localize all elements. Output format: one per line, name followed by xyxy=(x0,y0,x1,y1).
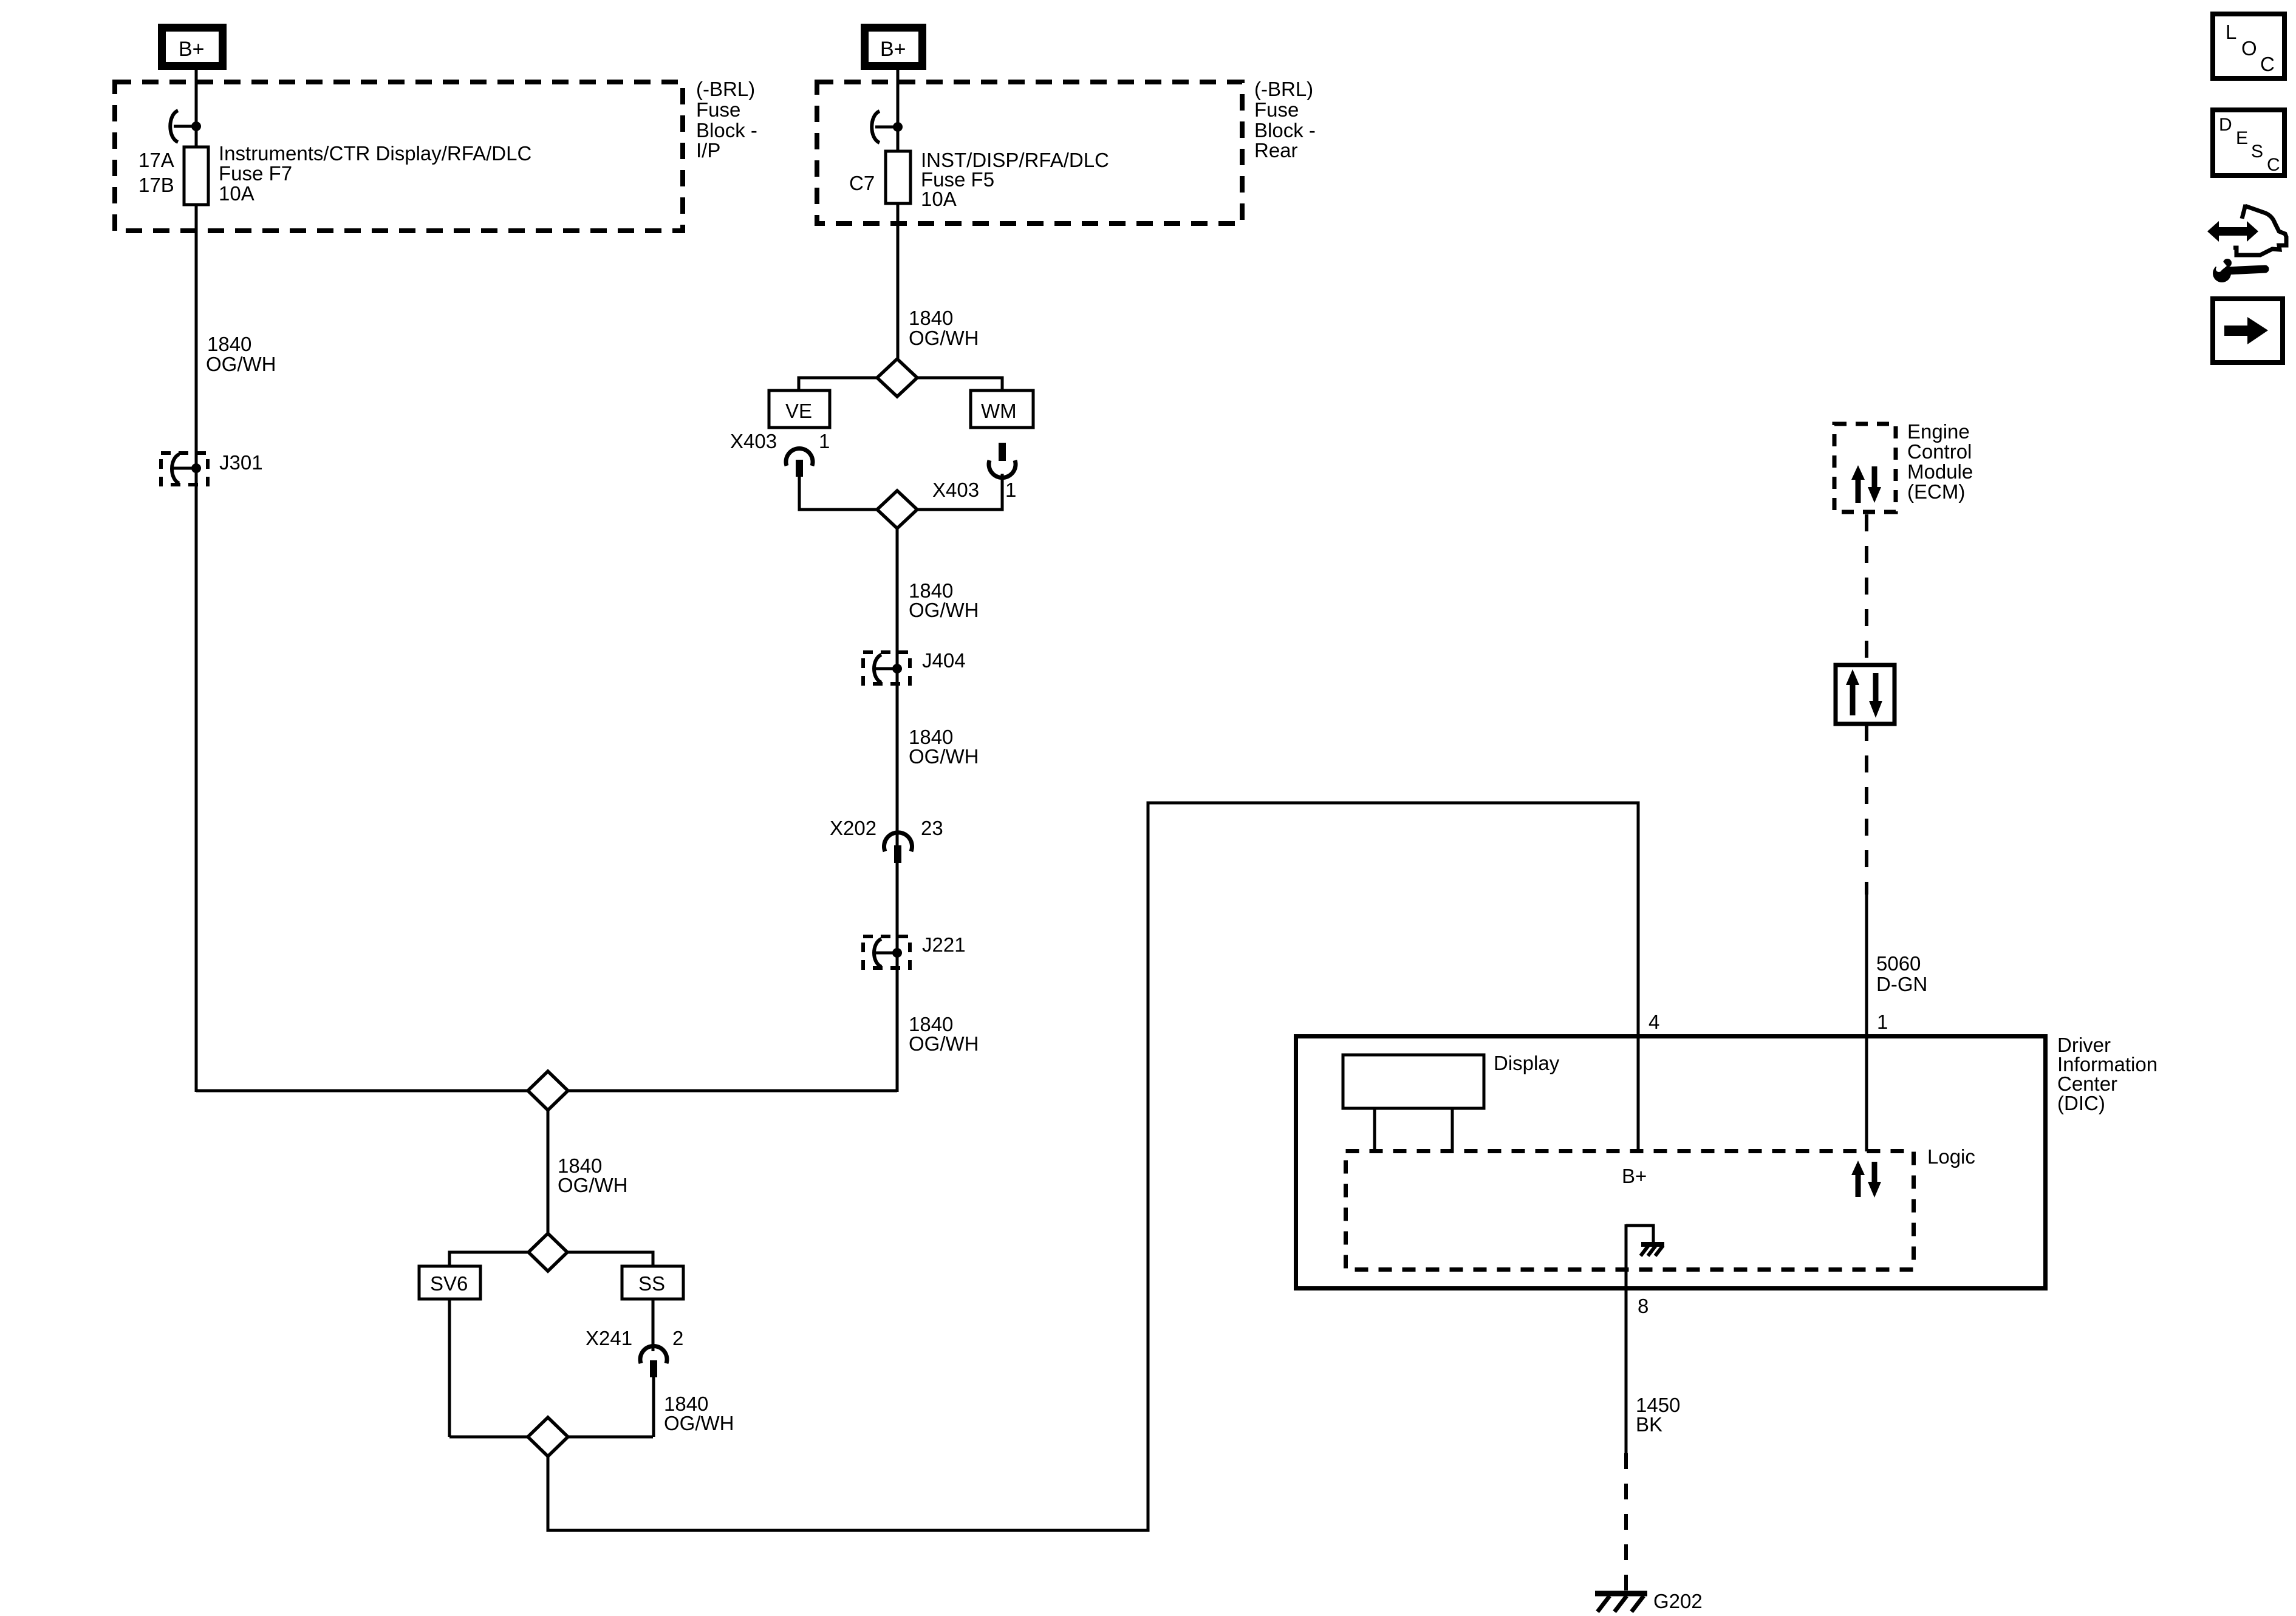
wire label 1840 OG/WH (above bus) xyxy=(909,1013,979,1055)
wire SV6 down to return bus xyxy=(448,1299,451,1437)
svg-text:OG/WH: OG/WH xyxy=(909,1032,979,1055)
svg-text:OG/WH: OG/WH xyxy=(909,327,979,349)
svg-text:D: D xyxy=(2219,115,2232,135)
svg-text:X202: X202 xyxy=(830,817,876,839)
svg-text:4: 4 xyxy=(1649,1011,1659,1033)
svg-text:Display: Display xyxy=(1494,1052,1560,1074)
svg-text:J221: J221 xyxy=(922,933,966,956)
node SV6 xyxy=(419,1266,480,1299)
wire return bus SV6-SS xyxy=(449,1436,653,1439)
svg-text:OG/WH: OG/WH xyxy=(558,1174,627,1196)
internal B+ label xyxy=(1622,1165,1647,1187)
next-page arrow box xyxy=(2213,299,2283,363)
svg-text:Fuse F7: Fuse F7 xyxy=(219,162,292,185)
svg-text:8: 8 xyxy=(1638,1295,1649,1317)
display element box xyxy=(1343,1055,1484,1108)
svg-text:Control: Control xyxy=(1907,440,1972,463)
DIC box xyxy=(1296,1037,2046,1289)
wire bus splice down to SV6/SS splice xyxy=(547,1091,550,1252)
logic serial data arrows xyxy=(1851,1161,1881,1198)
svg-text:SS: SS xyxy=(638,1272,665,1295)
svg-text:D-GN: D-GN xyxy=(1876,973,1927,995)
connector X241 pin 2 label xyxy=(586,1327,683,1349)
svg-text:VE: VE xyxy=(785,400,812,422)
wire label 1450 BK xyxy=(1636,1394,1680,1436)
svg-text:OG/WH: OG/WH xyxy=(206,353,276,375)
svg-text:1: 1 xyxy=(819,430,830,452)
internal ground hook xyxy=(1626,1226,1653,1243)
svg-text:L: L xyxy=(2226,21,2236,43)
svg-text:(-BRL): (-BRL) xyxy=(1254,78,1313,100)
fuse F5 cavity label C7 xyxy=(849,172,875,194)
svg-text:I/P: I/P xyxy=(696,139,720,162)
svg-text:SV6: SV6 xyxy=(430,1272,468,1295)
splice diamond (return bus) xyxy=(528,1417,568,1456)
fuse F7 cavity labels 17A 17B xyxy=(138,149,174,196)
wire WM branch to lower splice xyxy=(917,474,1002,510)
svg-text:1: 1 xyxy=(1877,1011,1888,1033)
connector X403 male pin (WM side) xyxy=(999,443,1006,461)
svg-text:X241: X241 xyxy=(586,1327,632,1349)
svg-text:S: S xyxy=(2251,141,2263,162)
splice diamond (below X403) xyxy=(877,491,917,528)
logic dashed box xyxy=(1346,1151,1914,1270)
wire VE branch to lower splice xyxy=(799,469,877,510)
svg-text:Engine: Engine xyxy=(1907,420,1970,443)
fuse block I/P dashed box xyxy=(115,82,683,231)
logic label xyxy=(1927,1145,1975,1168)
connector X403 male pin (VE side) xyxy=(796,460,803,477)
svg-text:Logic: Logic xyxy=(1927,1145,1975,1168)
wire to VE terminal xyxy=(799,378,877,392)
connector X241 female half xyxy=(640,1346,667,1363)
svg-text:Fuse: Fuse xyxy=(696,98,740,121)
svg-text:B+: B+ xyxy=(880,38,906,61)
svg-text:(-BRL): (-BRL) xyxy=(696,78,755,100)
wire long loop to DIC pin 4 xyxy=(548,803,1638,1530)
svg-text:C: C xyxy=(2267,155,2280,175)
svg-text:17B: 17B xyxy=(138,174,174,196)
splice J404 label xyxy=(922,649,966,672)
wire ECM dashed segment 1 xyxy=(1865,514,1868,663)
svg-text:1: 1 xyxy=(1005,479,1016,501)
svg-text:2: 2 xyxy=(672,1327,683,1349)
DIC label xyxy=(2057,1034,2158,1114)
svg-text:23: 23 xyxy=(921,817,943,839)
splice J221 label xyxy=(922,933,966,956)
DIC pin 4 label xyxy=(1649,1011,1659,1033)
svg-text:E: E xyxy=(2236,128,2248,148)
wire 5060 D-GN solid segment xyxy=(1865,895,1868,1151)
connector X202 pin 23 label xyxy=(830,817,943,839)
svg-text:Rear: Rear xyxy=(1254,139,1298,162)
wire label 1840 OG/WH (below J404) xyxy=(909,726,979,768)
fuse block Rear dashed box xyxy=(817,82,1242,223)
display element label xyxy=(1494,1052,1560,1074)
in-line serial data box xyxy=(1836,665,1895,724)
svg-text:J301: J301 xyxy=(219,451,263,474)
wire label 1840 OG/WH (bus drop) xyxy=(558,1154,627,1196)
svg-text:OG/WH: OG/WH xyxy=(664,1412,734,1434)
DIC pin 1 label xyxy=(1877,1011,1888,1033)
wire to SS xyxy=(567,1252,653,1267)
svg-text:G202: G202 xyxy=(1653,1590,1703,1612)
connector X403 pin 1 (WM side) label xyxy=(932,479,1016,501)
fuse block Rear label xyxy=(1254,78,1316,162)
wire B+ I/P feed down to bus xyxy=(195,67,198,1092)
connector X403 female half (VE side) xyxy=(786,448,813,466)
node SS xyxy=(622,1266,683,1299)
node VE xyxy=(769,390,830,428)
svg-text:Fuse: Fuse xyxy=(1254,98,1299,121)
wire B+ Rear feed down to X403 splice xyxy=(897,67,900,361)
connector X202 female half xyxy=(884,833,912,851)
splice diamond (above X403) xyxy=(877,359,917,397)
wire SS down to X241 xyxy=(652,1299,655,1351)
svg-text:Block -: Block - xyxy=(1254,119,1316,141)
svg-text:BK: BK xyxy=(1636,1413,1662,1436)
fuse block I/P label xyxy=(696,78,757,162)
wire ground 1450 BK solid xyxy=(1625,1224,1628,1453)
connector X403 pin 1 (VE side) label xyxy=(730,430,830,452)
connector X241 male pin xyxy=(650,1360,657,1377)
svg-text:B+: B+ xyxy=(1622,1165,1647,1187)
splice J301 label xyxy=(219,451,263,474)
svg-text:Block -: Block - xyxy=(696,119,757,141)
fuse clip junction (fuse block I/P) xyxy=(170,111,201,142)
splice J404 xyxy=(863,652,910,684)
wire label 1840 OG/WH (left feed) xyxy=(206,333,276,375)
svg-text:10A: 10A xyxy=(921,188,957,210)
wire ground dashed xyxy=(1624,1453,1628,1591)
fuse F7 description label xyxy=(219,142,531,205)
DIC pin 8 label xyxy=(1638,1295,1649,1317)
wire label 1840 OG/WH (below X403) xyxy=(909,579,979,621)
svg-text:5060: 5060 xyxy=(1876,952,1921,975)
wire label 1840 OG/WH (below fuse F5) xyxy=(909,307,979,349)
wire label 5060 D-GN xyxy=(1876,952,1927,995)
wire horizontal bus 1840 OG/WH xyxy=(196,1089,897,1093)
splice J301 xyxy=(161,453,208,485)
ECM dashed box xyxy=(1834,424,1896,512)
svg-text:Instruments/CTR Display/RFA/DL: Instruments/CTR Display/RFA/DLC xyxy=(219,142,531,165)
svg-text:(ECM): (ECM) xyxy=(1907,480,1965,503)
wire X241 down to return bus xyxy=(652,1376,655,1437)
svg-text:B+: B+ xyxy=(179,38,205,61)
connector X403 female half (WM side) xyxy=(989,460,1016,478)
splice diamond (SV6/SS branch) xyxy=(528,1233,567,1271)
svg-text:O: O xyxy=(2241,37,2257,60)
wire to SV6 xyxy=(449,1252,528,1267)
internal chassis ground symbol xyxy=(1641,1244,1664,1256)
fuse clip junction (fuse block Rear) xyxy=(872,111,903,143)
ECM label xyxy=(1907,420,1973,503)
splice diamond on bus xyxy=(528,1071,568,1110)
fuse F7 10A xyxy=(184,147,208,205)
display legs xyxy=(1375,1108,1452,1151)
wire label 1840 OG/WH (below X241) xyxy=(664,1393,734,1434)
svg-text:C7: C7 xyxy=(849,172,875,194)
DESC legend box xyxy=(2213,110,2284,176)
diagnostic icon car outline xyxy=(2233,205,2286,255)
svg-text:10A: 10A xyxy=(219,182,255,205)
svg-text:X403: X403 xyxy=(932,479,979,501)
LOC legend box xyxy=(2213,14,2284,78)
svg-text:17A: 17A xyxy=(138,149,174,171)
node WM xyxy=(971,390,1033,428)
wire to WM terminal xyxy=(917,378,1002,392)
power symbol B+ (fuse block Rear) xyxy=(861,24,926,70)
svg-text:C: C xyxy=(2260,53,2275,75)
splice J221 xyxy=(863,936,910,968)
svg-text:(DIC): (DIC) xyxy=(2057,1092,2105,1114)
ground G202 chassis symbol xyxy=(1595,1594,1647,1612)
svg-text:X403: X403 xyxy=(730,430,777,452)
diagnostic icon double arrow xyxy=(2207,221,2258,242)
svg-text:OG/WH: OG/WH xyxy=(909,745,979,768)
svg-text:OG/WH: OG/WH xyxy=(909,599,979,621)
svg-text:Module: Module xyxy=(1907,460,1973,483)
wire main run down to bus xyxy=(896,522,899,1092)
power symbol B+ (fuse block I/P) xyxy=(158,24,227,70)
ECM serial data arrows xyxy=(1851,465,1881,503)
fuse F5 10A xyxy=(886,151,911,203)
wire ECM dashed segment 2 xyxy=(1865,724,1868,895)
ground G202 label xyxy=(1653,1590,1703,1612)
svg-text:WM: WM xyxy=(981,400,1017,422)
fuse F5 description label xyxy=(921,149,1109,210)
connector X202 male pin xyxy=(894,845,901,863)
svg-text:1840: 1840 xyxy=(909,307,953,329)
svg-text:1840: 1840 xyxy=(207,333,251,355)
svg-text:J404: J404 xyxy=(922,649,966,672)
diagnostic icon wrench xyxy=(2212,256,2265,282)
